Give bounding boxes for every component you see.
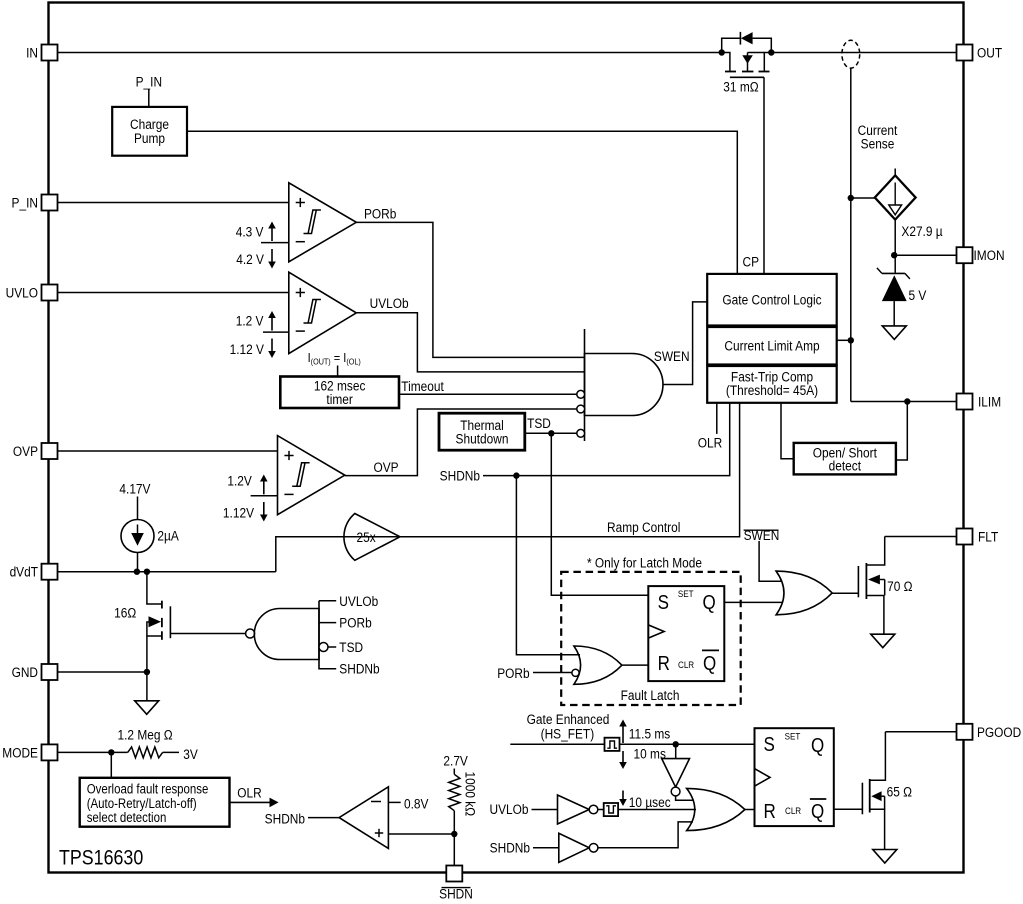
bubble OVP input	[577, 405, 585, 413]
node sense-diamond junction	[848, 195, 854, 201]
svg-text:31 mΩ: 31 mΩ	[723, 79, 759, 95]
latch U10 fault latch	[648, 586, 724, 681]
wire charge pump output to CP node	[187, 131, 737, 274]
svg-text:Overload fault response: Overload fault response	[87, 782, 209, 797]
svg-text:CLR: CLR	[678, 659, 694, 670]
resistor R1 1.2 Meg	[128, 747, 163, 758]
svg-text:1.2V: 1.2V	[227, 473, 252, 489]
svg-text:PORb: PORb	[364, 206, 396, 222]
wire UVLOb output	[356, 313, 584, 372]
wire CP gate drive	[763, 77, 765, 274]
thermal shutdown block	[439, 413, 525, 450]
ground below Q4	[873, 850, 897, 864]
current limit amp block	[707, 327, 837, 365]
wire TSD output	[525, 432, 577, 434]
svg-text:Sense: Sense	[861, 135, 895, 151]
wire OLR stub	[716, 403, 718, 434]
svg-text:P_IN: P_IN	[136, 73, 162, 89]
svg-text:P_IN: P_IN	[12, 195, 38, 211]
node dVdT source junction	[134, 569, 140, 575]
svg-text:Ramp Control: Ramp Control	[607, 519, 680, 535]
svg-text:FLT: FLT	[978, 529, 998, 545]
wire ILIM	[851, 401, 957, 403]
pin MODE	[42, 744, 58, 760]
wire PORb output	[356, 222, 584, 357]
svg-text:1.12V: 1.12V	[223, 505, 254, 521]
wire ramp control	[346, 403, 740, 537]
wire divider to SHDN pin	[453, 834, 455, 866]
svg-text:2.7V: 2.7V	[443, 753, 468, 769]
svg-text:SET: SET	[785, 731, 801, 742]
wire IN rail	[58, 52, 722, 54]
node dVdT FET junction	[144, 569, 150, 575]
transistor Q2 70ohm	[857, 566, 859, 597]
svg-text:SHDNb: SHDNb	[440, 467, 480, 483]
svg-text:IN: IN	[26, 45, 38, 61]
current sense tap ellipse	[842, 40, 860, 68]
svg-text:R: R	[658, 652, 670, 675]
wire OR to pgood latch R	[745, 809, 755, 811]
svg-text:1.12 V: 1.12 V	[230, 341, 265, 357]
wire P_IN to POR comparator	[58, 202, 289, 204]
comparator U4 OVP	[278, 436, 345, 515]
pin FLT	[957, 529, 973, 545]
wire PGOOD	[885, 731, 956, 733]
node TSD junction	[548, 430, 554, 436]
ground below Q2	[871, 634, 895, 648]
svg-text:4.2 V: 4.2 V	[236, 251, 264, 267]
timer 162 msec	[280, 377, 399, 409]
wire OVP to comparator	[58, 450, 278, 452]
svg-text:2µA: 2µA	[157, 528, 179, 544]
svg-text:10 µsec: 10 µsec	[629, 794, 671, 810]
bubble Timeout input	[577, 390, 585, 398]
or gate U9 fault latch reset	[574, 646, 622, 684]
wire MODE	[58, 751, 128, 753]
wire shdnb inverter to OR	[598, 822, 693, 848]
svg-text:3V: 3V	[183, 746, 198, 762]
svg-text:* Only for Latch Mode: * Only for Latch Mode	[587, 555, 702, 571]
svg-text:S: S	[764, 733, 775, 756]
wire MODE to overload box	[110, 752, 112, 777]
wire gate enhanced to latch S	[510, 743, 604, 745]
svg-text:16Ω: 16Ω	[114, 605, 136, 621]
comparator U12 shutdown	[339, 787, 388, 849]
bubble TSD nand input	[319, 643, 328, 652]
svg-text:PORb: PORb	[339, 615, 371, 631]
gate control logic block	[707, 274, 837, 326]
svg-text:UVLOb: UVLOb	[489, 801, 528, 817]
svg-text:R: R	[764, 799, 776, 822]
ground below Q3	[135, 701, 159, 715]
svg-text:Q: Q	[703, 652, 716, 675]
svg-text:TSD: TSD	[527, 415, 551, 431]
wire SHDNb to fault latch OR	[516, 476, 580, 655]
svg-text:OVP: OVP	[13, 443, 38, 459]
wire SHDNb input stub	[319, 668, 336, 670]
transistor Q4 65ohm	[861, 783, 863, 815]
pin SHDN	[446, 866, 462, 882]
svg-text:Pump: Pump	[134, 130, 165, 146]
current source U6 sense mirror diamond	[894, 169, 896, 176]
inverter U13 pgood set	[675, 744, 677, 758]
wire diamond to IMON	[894, 220, 896, 273]
wire plus input to divider	[388, 833, 454, 835]
wire UVLOb input stub	[319, 600, 336, 602]
wire current limit amp to sense line	[837, 339, 851, 341]
wire pgood latch Q to Q4 gate	[834, 808, 863, 810]
or gate U16 pgood reset	[687, 788, 745, 830]
label 10 ms falling delay	[622, 751, 624, 763]
inverter U14 uvlob	[532, 809, 558, 811]
amplifier U7 25x	[344, 514, 400, 561]
svg-text:Q: Q	[811, 734, 824, 757]
node sense-CLA junction	[848, 337, 854, 343]
body diode of Q1	[722, 38, 741, 52]
svg-text:4.17V: 4.17V	[119, 481, 150, 497]
label 11.5 ms rising delay	[622, 726, 624, 744]
bubble PORb OR input	[572, 669, 579, 676]
or gate U11 FLT	[776, 571, 832, 615]
pin IN	[42, 45, 58, 61]
wire diamond to sense line	[851, 197, 875, 199]
fast-trip comparator block	[707, 366, 837, 403]
fault latch dashed box	[561, 572, 741, 705]
current source I1 2uA	[137, 497, 139, 520]
wire POR minus input	[261, 242, 289, 244]
svg-text:SWEN: SWEN	[744, 527, 780, 543]
pin UVLO	[42, 285, 58, 301]
pin P_IN	[42, 195, 58, 211]
and gate U5 SWEN	[585, 354, 663, 416]
svg-text:70 Ω: 70 Ω	[887, 578, 913, 594]
wire TSD to fault latch S input	[551, 433, 648, 595]
svg-text:1000 kΩ: 1000 kΩ	[462, 772, 478, 817]
wire fast-trip to open short detect	[781, 403, 794, 459]
svg-text:0.8V: 0.8V	[404, 795, 429, 811]
svg-text:65 Ω: 65 Ω	[887, 784, 913, 800]
wire UVLO minus input	[263, 331, 289, 333]
svg-text:ILIM: ILIM	[978, 394, 1001, 410]
svg-text:SHDNb: SHDNb	[339, 661, 379, 677]
wire UVLO to comparator	[58, 292, 289, 294]
svg-text:Timeout: Timeout	[401, 378, 444, 394]
svg-text:Shutdown: Shutdown	[456, 431, 509, 447]
svg-text:(Threshold= 45A): (Threshold= 45A)	[726, 382, 818, 398]
svg-text:Gate Control Logic: Gate Control Logic	[722, 291, 822, 307]
svg-text:4.3 V: 4.3 V	[236, 224, 264, 240]
pulse generator symbol 11.5ms	[605, 738, 620, 751]
ground below zener	[882, 326, 906, 340]
wire SWEN to FLT OR	[759, 541, 782, 581]
node divider junction	[451, 831, 457, 837]
svg-text:PORb: PORb	[497, 665, 529, 681]
inverter U15 shdnb	[533, 847, 559, 849]
comparator U2 POR	[289, 183, 357, 262]
pulse generator symbol 10usec	[604, 803, 618, 816]
resistor R2 1000k	[453, 769, 455, 775]
wire OVP output	[345, 409, 577, 476]
svg-text:OLR: OLR	[237, 785, 261, 801]
pin GND	[42, 664, 58, 680]
svg-text:PGOOD: PGOOD	[977, 724, 1021, 740]
nand gate U8	[246, 629, 255, 638]
svg-text:IMON: IMON	[974, 247, 1005, 263]
svg-text:OUT: OUT	[977, 45, 1002, 61]
node gate enhanced junction	[673, 741, 679, 747]
svg-text:CP: CP	[743, 254, 760, 270]
wire to ground symbol	[146, 672, 148, 701]
pin OVP	[42, 443, 58, 459]
svg-text:1.2 V: 1.2 V	[236, 313, 264, 329]
svg-text:GND: GND	[12, 664, 38, 680]
svg-text:1.2 Meg Ω: 1.2 Meg Ω	[118, 726, 173, 742]
wire SHDNb from comparator	[308, 817, 339, 819]
svg-text:UVLOb: UVLOb	[370, 295, 409, 311]
svg-text:detect: detect	[829, 458, 862, 474]
wire NAND output to Q3 gate	[170, 633, 245, 635]
node FET-OUT junction	[768, 49, 774, 55]
svg-text:timer: timer	[326, 391, 353, 407]
svg-text:5 V: 5 V	[909, 287, 927, 303]
node SHDNb junction	[513, 472, 519, 478]
svg-text:select detection: select detection	[87, 810, 167, 825]
pin ILIM	[957, 394, 973, 410]
node IN-FET junction	[719, 49, 725, 55]
node MODE junction	[108, 749, 114, 755]
diode D1 zener 5V	[882, 272, 905, 274]
svg-text:25x: 25x	[357, 529, 377, 545]
pin IMON	[957, 247, 973, 263]
svg-text:Fault Latch: Fault Latch	[621, 687, 680, 703]
transistor Q3 16ohm	[147, 572, 162, 604]
svg-text:SHDNb: SHDNb	[490, 839, 530, 855]
latch U17 pgood	[755, 728, 834, 826]
wire OUT rail	[771, 52, 956, 54]
svg-text:11.5 ms: 11.5 ms	[629, 725, 671, 741]
wire PORb input stub	[319, 622, 336, 624]
node GND junction	[144, 669, 150, 675]
svg-text:(HS_FET): (HS_FET)	[541, 726, 595, 742]
transistor Q1 31mohm power FET	[722, 53, 730, 71]
wire 10usec to OR	[618, 809, 696, 811]
svg-text:Q: Q	[811, 799, 824, 822]
svg-text:dVdT: dVdT	[10, 564, 38, 580]
pin PGOOD	[957, 724, 973, 740]
wire OVP minus input	[251, 495, 278, 497]
wire FLT OR to Q2 gate	[832, 592, 858, 594]
svg-text:OVP: OVP	[374, 459, 399, 475]
wire open short detect to ILIM	[896, 402, 907, 461]
bubble TSD input	[577, 429, 585, 437]
pin OUT	[957, 45, 973, 61]
wire OR to R input	[622, 664, 648, 666]
svg-text:Q: Q	[703, 591, 716, 614]
svg-text:Current Limit Amp: Current Limit Amp	[724, 337, 819, 353]
wire SWEN to gate control logic	[663, 302, 707, 385]
wire OLR arrow	[230, 801, 271, 803]
charge pump	[112, 107, 187, 156]
wire PORb to fault latch OR	[533, 672, 572, 674]
wire GND rail	[58, 671, 147, 673]
svg-text:CLR: CLR	[785, 805, 801, 816]
svg-text:TSD: TSD	[339, 639, 363, 655]
pin dVdT	[42, 564, 58, 580]
wire fault latch Q to FLT OR	[724, 601, 783, 603]
svg-text:SHDNb: SHDNb	[265, 810, 305, 826]
svg-text:(Auto-Retry/Latch-off): (Auto-Retry/Latch-off)	[87, 796, 197, 811]
wire 0.8V reference	[388, 801, 400, 803]
label 10 usec delay	[622, 791, 624, 801]
svg-text:UVLO: UVLO	[6, 285, 38, 301]
wire dVdT to 25x input	[58, 571, 276, 573]
svg-text:SET: SET	[678, 589, 694, 600]
svg-text:X27.9 µ: X27.9 µ	[901, 223, 943, 239]
svg-text:S: S	[658, 591, 669, 614]
overload fault response block	[80, 778, 230, 827]
open short detect block	[794, 443, 896, 475]
svg-text:OLR: OLR	[698, 435, 722, 451]
wire current sense line	[850, 68, 852, 401]
comparator U3 UVLO	[289, 272, 357, 353]
svg-text:MODE: MODE	[2, 744, 38, 760]
node ILIM junction	[904, 398, 910, 404]
wire FLT	[885, 536, 957, 538]
svg-text:TPS16630: TPS16630	[59, 846, 143, 870]
svg-text:SWEN: SWEN	[654, 348, 690, 364]
wire Timeout	[399, 393, 577, 395]
svg-text:UVLOb: UVLOb	[339, 593, 378, 609]
wire SHDNb to fast-trip	[483, 403, 730, 476]
